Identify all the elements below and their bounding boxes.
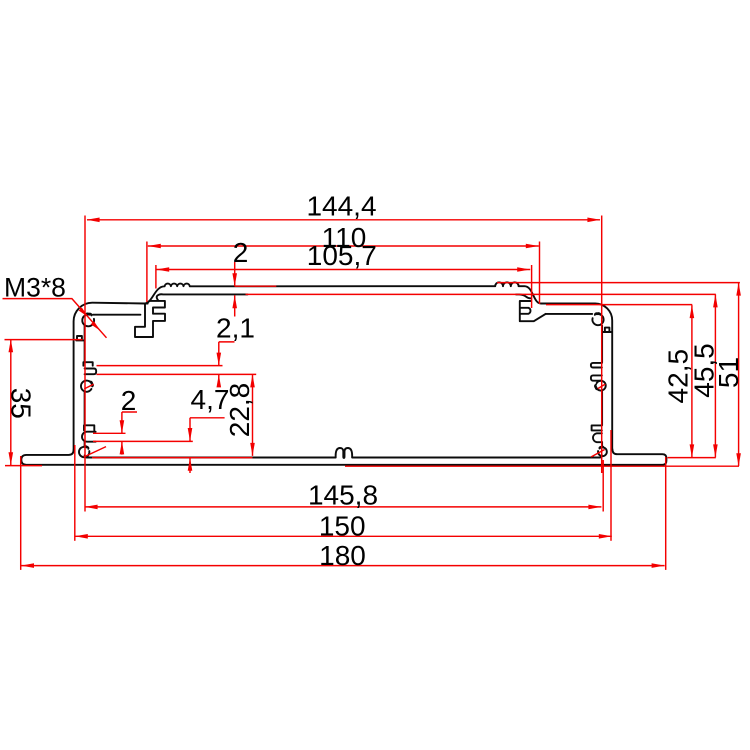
svg-text:35: 35	[6, 388, 37, 419]
svg-text:180: 180	[319, 540, 366, 571]
svg-text:2,1: 2,1	[216, 313, 255, 344]
svg-text:22,8: 22,8	[224, 383, 255, 438]
svg-text:2: 2	[121, 385, 137, 416]
svg-text:2: 2	[233, 237, 249, 268]
svg-text:M3*8: M3*8	[4, 273, 66, 303]
svg-text:51: 51	[713, 357, 744, 388]
svg-text:144,4: 144,4	[306, 190, 376, 221]
svg-text:145,8: 145,8	[308, 479, 378, 510]
svg-text:150: 150	[319, 511, 366, 542]
svg-text:105,7: 105,7	[307, 240, 377, 271]
